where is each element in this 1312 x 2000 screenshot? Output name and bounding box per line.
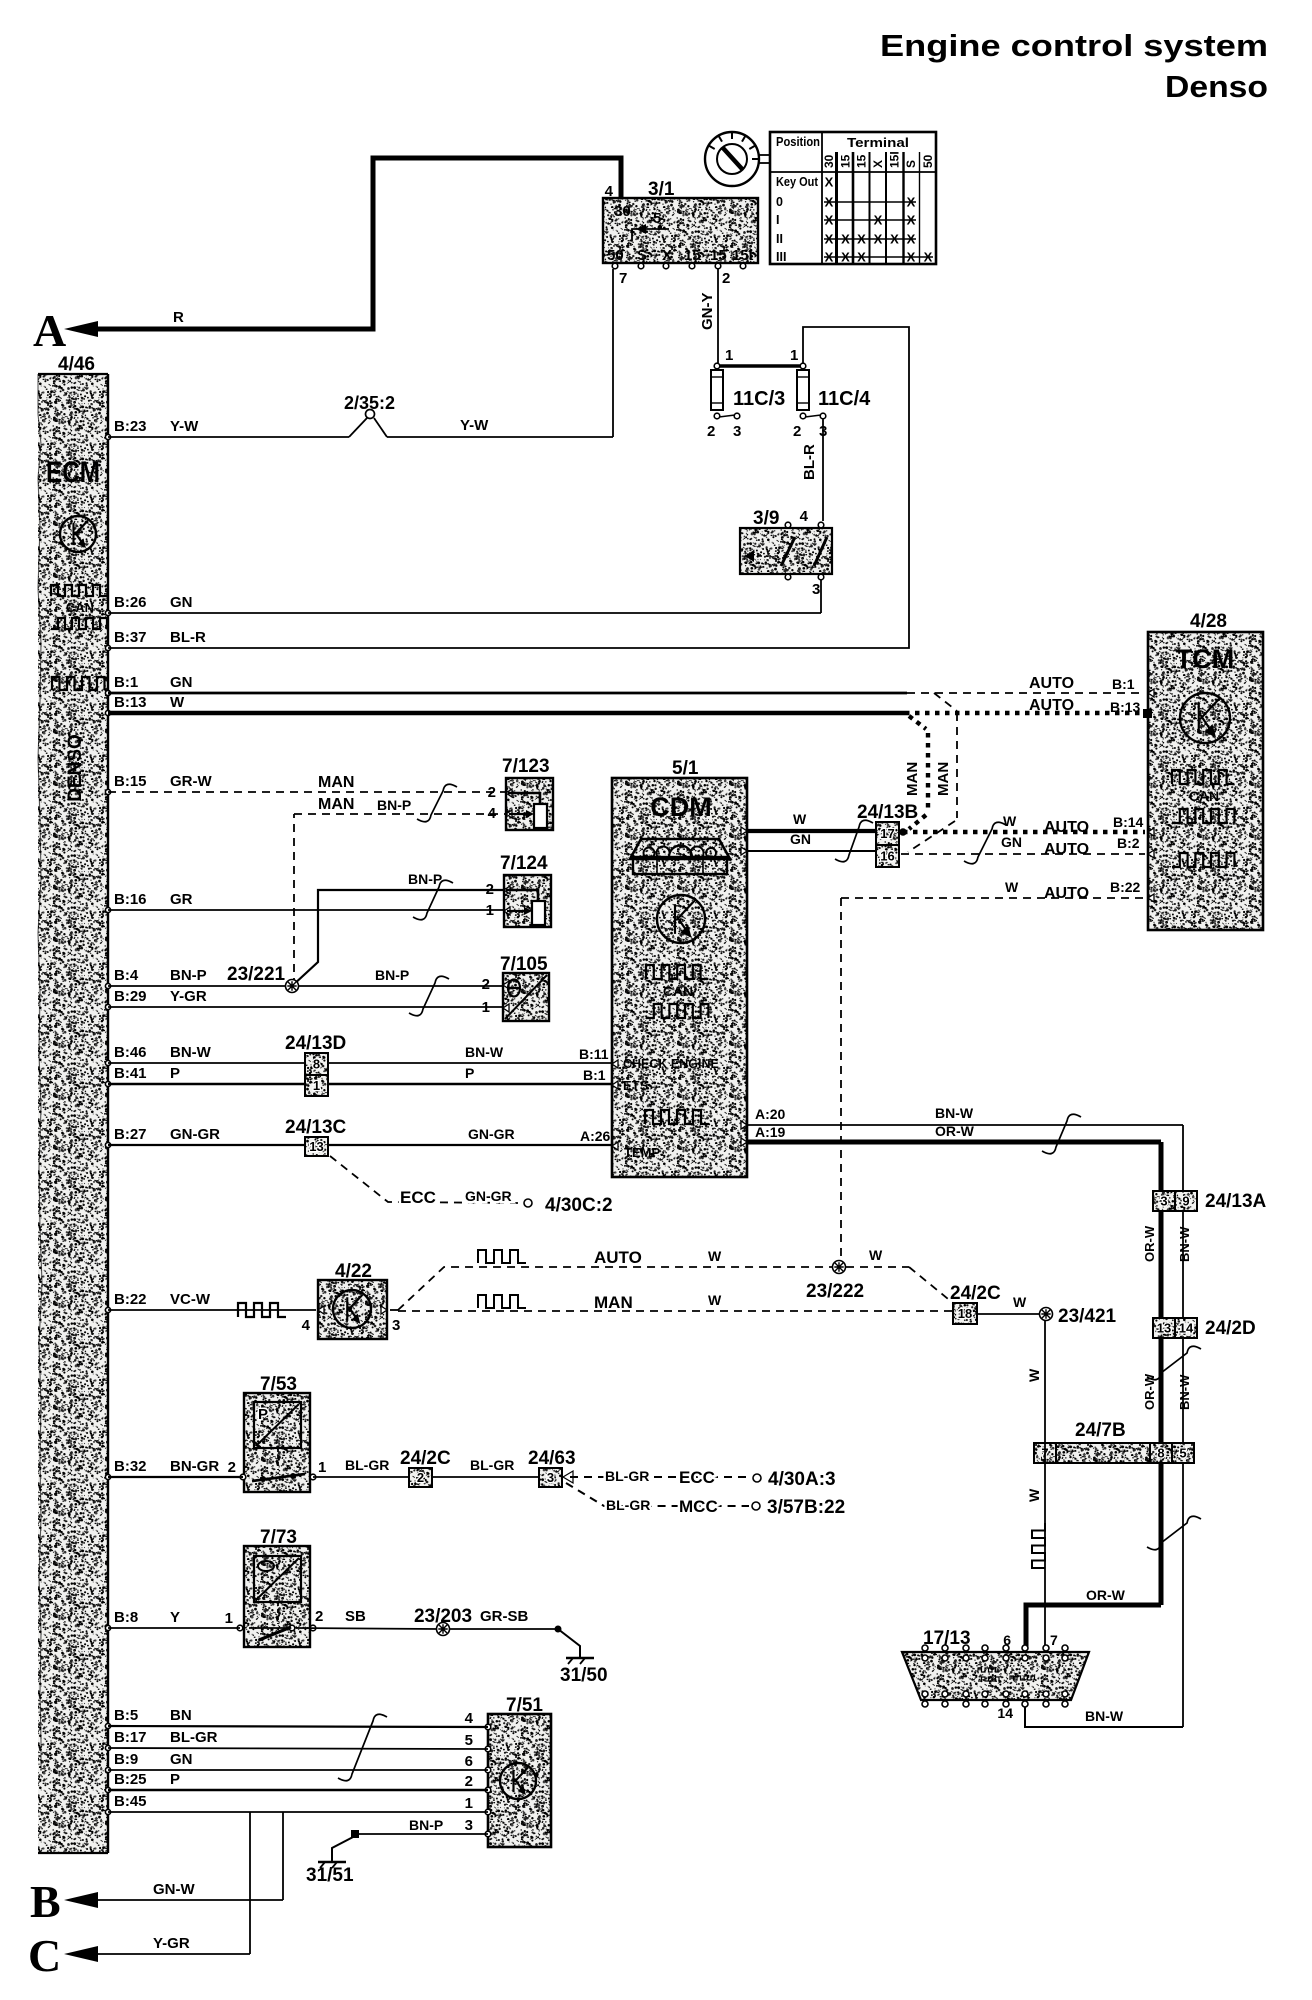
svg-text:W: W bbox=[1005, 879, 1019, 895]
svg-text:W: W bbox=[793, 811, 807, 827]
svg-text:18: 18 bbox=[958, 1306, 972, 1321]
svg-text:AUTO: AUTO bbox=[1029, 697, 1074, 714]
svg-text:BL-GR: BL-GR bbox=[170, 1729, 218, 1746]
svg-text:17: 17 bbox=[880, 826, 894, 841]
svg-text:2: 2 bbox=[465, 1773, 473, 1790]
svg-text:B:2: B:2 bbox=[1117, 835, 1140, 851]
svg-text:Key Out: Key Out bbox=[776, 175, 819, 189]
svg-text:B:23: B:23 bbox=[114, 418, 147, 435]
svg-text:ECC: ECC bbox=[679, 1468, 715, 1487]
svg-text:BN-P: BN-P bbox=[409, 1817, 443, 1833]
svg-text:MAN: MAN bbox=[318, 796, 354, 813]
svg-text:OR-W: OR-W bbox=[1086, 1587, 1126, 1603]
svg-text:7/123: 7/123 bbox=[502, 756, 550, 777]
svg-text:B:37: B:37 bbox=[114, 629, 147, 646]
svg-text:GR: GR bbox=[170, 891, 193, 908]
svg-text:ECM: ECM bbox=[46, 456, 100, 489]
svg-text:Y-W: Y-W bbox=[170, 418, 199, 435]
svg-text:1: 1 bbox=[318, 1459, 326, 1476]
svg-text:6: 6 bbox=[465, 1753, 473, 1770]
svg-text:B:26: B:26 bbox=[114, 594, 147, 611]
svg-text:GN: GN bbox=[170, 674, 193, 691]
svg-text:GR-W: GR-W bbox=[170, 773, 212, 790]
svg-text:BN-P: BN-P bbox=[377, 797, 411, 813]
svg-text:Position: Position bbox=[776, 134, 820, 149]
svg-text:B:9: B:9 bbox=[114, 1751, 138, 1768]
svg-text:CAN: CAN bbox=[663, 983, 693, 999]
svg-text:BN-W: BN-W bbox=[935, 1105, 974, 1121]
svg-text:30: 30 bbox=[614, 203, 631, 220]
svg-text:3: 3 bbox=[1160, 1194, 1167, 1209]
svg-text:ETS: ETS bbox=[623, 1078, 649, 1093]
svg-text:2: 2 bbox=[722, 270, 730, 287]
svg-text:24/13D: 24/13D bbox=[285, 1033, 346, 1054]
svg-text:X: X bbox=[871, 160, 885, 168]
svg-text:GR-SB: GR-SB bbox=[480, 1608, 529, 1625]
svg-text:23/421: 23/421 bbox=[1058, 1306, 1117, 1327]
svg-text:CHECK ENGINE: CHECK ENGINE bbox=[623, 1057, 719, 1071]
svg-text:6: 6 bbox=[1003, 1632, 1011, 1648]
svg-text:CAN: CAN bbox=[66, 600, 94, 615]
svg-text:DENSO: DENSO bbox=[65, 734, 86, 802]
svg-text:B:5: B:5 bbox=[114, 1707, 138, 1724]
svg-text:X: X bbox=[662, 247, 672, 264]
svg-text:24/2C: 24/2C bbox=[400, 1448, 451, 1469]
svg-text:14: 14 bbox=[997, 1705, 1013, 1721]
svg-text:W: W bbox=[708, 1248, 722, 1264]
svg-text:III: III bbox=[776, 250, 786, 264]
svg-text:X: X bbox=[890, 232, 899, 247]
svg-text:B:14: B:14 bbox=[1113, 814, 1144, 830]
svg-text:OR-W: OR-W bbox=[1142, 1373, 1157, 1410]
svg-text:2: 2 bbox=[707, 423, 715, 440]
svg-text:W: W bbox=[170, 694, 185, 711]
svg-text:24/2D: 24/2D bbox=[1205, 1318, 1256, 1339]
svg-text:B: B bbox=[30, 1876, 61, 1927]
svg-text:11C/4: 11C/4 bbox=[818, 388, 871, 410]
svg-text:I: I bbox=[776, 213, 779, 227]
svg-text:B:41: B:41 bbox=[114, 1065, 147, 1082]
svg-text:P: P bbox=[465, 1065, 474, 1081]
svg-text:B:25: B:25 bbox=[114, 1771, 147, 1788]
svg-text:BN-P: BN-P bbox=[408, 871, 442, 887]
svg-text:GN-W: GN-W bbox=[153, 1881, 195, 1898]
svg-text:BL-GR: BL-GR bbox=[470, 1457, 514, 1473]
svg-text:24/63: 24/63 bbox=[528, 1448, 576, 1469]
svg-text:II: II bbox=[776, 232, 783, 246]
svg-text:AUTO: AUTO bbox=[1044, 819, 1089, 836]
svg-text:1: 1 bbox=[725, 347, 733, 364]
svg-text:B:16: B:16 bbox=[114, 891, 147, 908]
svg-text:50: 50 bbox=[921, 154, 935, 168]
svg-text:MAN: MAN bbox=[594, 1293, 633, 1312]
svg-text:GN: GN bbox=[790, 831, 811, 847]
svg-text:B:22: B:22 bbox=[1110, 879, 1141, 895]
svg-text:P: P bbox=[258, 1406, 268, 1423]
svg-text:Y-GR: Y-GR bbox=[170, 988, 207, 1005]
svg-text:BL-GR: BL-GR bbox=[345, 1457, 389, 1473]
svg-text:B:1: B:1 bbox=[114, 674, 138, 691]
svg-text:B:27: B:27 bbox=[114, 1126, 147, 1143]
svg-text:3/1: 3/1 bbox=[648, 179, 675, 200]
svg-text:MAN: MAN bbox=[318, 774, 354, 791]
svg-text:Denso: Denso bbox=[1165, 69, 1268, 104]
svg-text:15: 15 bbox=[710, 247, 727, 264]
svg-text:W: W bbox=[1026, 1368, 1042, 1382]
svg-text:AUTO: AUTO bbox=[1044, 885, 1089, 902]
svg-text:31/51: 31/51 bbox=[306, 1865, 354, 1886]
svg-text:GN-Y: GN-Y bbox=[699, 293, 716, 331]
svg-text:BL-R: BL-R bbox=[170, 629, 206, 646]
svg-text:X: X bbox=[907, 195, 916, 210]
svg-text:X: X bbox=[825, 250, 834, 265]
svg-text:B:45: B:45 bbox=[114, 1793, 147, 1810]
svg-text:1: 1 bbox=[465, 1795, 473, 1812]
svg-text:4: 4 bbox=[800, 508, 809, 525]
svg-text:OR-W: OR-W bbox=[935, 1123, 975, 1139]
svg-text:3: 3 bbox=[392, 1317, 400, 1334]
svg-text:2: 2 bbox=[417, 1470, 424, 1485]
svg-text:AUTO: AUTO bbox=[1029, 675, 1074, 692]
svg-text:3: 3 bbox=[812, 581, 820, 598]
svg-text:S: S bbox=[637, 247, 647, 264]
svg-text:GN-GR: GN-GR bbox=[465, 1188, 512, 1204]
svg-text:15: 15 bbox=[839, 154, 853, 168]
svg-text:BN-W: BN-W bbox=[1177, 1374, 1192, 1410]
svg-text:4: 4 bbox=[605, 183, 614, 200]
svg-text:2: 2 bbox=[793, 423, 801, 440]
svg-text:P: P bbox=[170, 1065, 180, 1082]
svg-text:A:20: A:20 bbox=[755, 1106, 786, 1122]
svg-text:W: W bbox=[869, 1247, 883, 1263]
svg-text:X: X bbox=[825, 213, 834, 228]
svg-text:23/221: 23/221 bbox=[227, 964, 286, 985]
svg-text:ECC: ECC bbox=[400, 1188, 436, 1207]
svg-text:7: 7 bbox=[619, 270, 627, 287]
svg-text:16: 16 bbox=[880, 849, 894, 864]
svg-text:4: 4 bbox=[465, 1710, 474, 1727]
svg-text:GN: GN bbox=[170, 1751, 193, 1768]
svg-text:24/7B: 24/7B bbox=[1075, 1420, 1126, 1441]
svg-text:B:17: B:17 bbox=[114, 1729, 147, 1746]
svg-text:X: X bbox=[874, 232, 883, 247]
svg-text:B:13: B:13 bbox=[114, 694, 147, 711]
svg-text:A:26: A:26 bbox=[580, 1128, 611, 1144]
svg-text:B:13: B:13 bbox=[1110, 699, 1141, 715]
svg-text:9: 9 bbox=[1182, 1194, 1189, 1209]
svg-text:BN-P: BN-P bbox=[375, 967, 409, 983]
svg-text:MAN: MAN bbox=[935, 762, 952, 796]
svg-text:2: 2 bbox=[228, 1459, 236, 1476]
svg-text:4/30A:3: 4/30A:3 bbox=[768, 1469, 836, 1490]
svg-text:BN-P: BN-P bbox=[170, 967, 207, 984]
svg-text:TEMP: TEMP bbox=[624, 1145, 660, 1160]
svg-text:B:1: B:1 bbox=[1112, 676, 1135, 692]
svg-text:C: C bbox=[28, 1930, 61, 1981]
svg-text:MAN: MAN bbox=[904, 762, 921, 796]
svg-text:GN-GR: GN-GR bbox=[468, 1126, 515, 1142]
svg-text:X: X bbox=[874, 213, 883, 228]
svg-text:B:11: B:11 bbox=[579, 1046, 609, 1062]
svg-text:7: 7 bbox=[1050, 1632, 1058, 1648]
svg-text:CDM: CDM bbox=[650, 792, 712, 822]
svg-text:Y-W: Y-W bbox=[460, 417, 489, 434]
svg-text:X: X bbox=[825, 232, 834, 247]
svg-text:2/35:2: 2/35:2 bbox=[344, 393, 395, 413]
svg-text:AUTO: AUTO bbox=[1044, 841, 1089, 858]
svg-text:1: 1 bbox=[313, 1078, 320, 1093]
svg-text:2: 2 bbox=[315, 1608, 323, 1625]
svg-text:S: S bbox=[904, 160, 918, 168]
svg-text:3: 3 bbox=[465, 1817, 473, 1834]
svg-text:8: 8 bbox=[1157, 1446, 1164, 1461]
svg-text:B:22: B:22 bbox=[114, 1291, 147, 1308]
svg-text:7/124: 7/124 bbox=[500, 853, 548, 874]
svg-text:X: X bbox=[907, 232, 916, 247]
svg-text:3: 3 bbox=[547, 1470, 554, 1485]
svg-text:P: P bbox=[170, 1771, 180, 1788]
svg-text:15: 15 bbox=[855, 154, 869, 168]
svg-text:Y-GR: Y-GR bbox=[153, 1935, 190, 1952]
svg-text:24/13C: 24/13C bbox=[285, 1117, 347, 1138]
svg-text:5: 5 bbox=[465, 1732, 473, 1749]
svg-text:3: 3 bbox=[733, 423, 741, 440]
svg-text:5: 5 bbox=[653, 210, 661, 227]
svg-text:31/50: 31/50 bbox=[560, 1665, 608, 1686]
svg-text:23/222: 23/222 bbox=[806, 1281, 864, 1302]
svg-text:B:46: B:46 bbox=[114, 1044, 147, 1061]
svg-text:X: X bbox=[825, 195, 834, 210]
svg-text:BL-GR: BL-GR bbox=[606, 1497, 650, 1513]
svg-text:B:4: B:4 bbox=[114, 967, 139, 984]
svg-text:1: 1 bbox=[790, 347, 798, 364]
svg-text:24/13A: 24/13A bbox=[1205, 1191, 1267, 1212]
svg-text:OR-W: OR-W bbox=[1142, 1225, 1157, 1262]
svg-text:R: R bbox=[173, 309, 184, 326]
svg-text:11C/3: 11C/3 bbox=[733, 388, 785, 410]
svg-text:X: X bbox=[841, 232, 850, 247]
svg-text:A:19: A:19 bbox=[755, 1124, 786, 1140]
svg-text:B:8: B:8 bbox=[114, 1609, 138, 1626]
svg-text:BN: BN bbox=[170, 1707, 192, 1724]
svg-text:8: 8 bbox=[313, 1057, 320, 1072]
svg-text:4/28: 4/28 bbox=[1190, 611, 1227, 632]
svg-text:B:1: B:1 bbox=[583, 1067, 606, 1083]
svg-text:3/9: 3/9 bbox=[753, 508, 779, 529]
svg-text:50: 50 bbox=[607, 247, 624, 264]
svg-text:A: A bbox=[33, 305, 66, 356]
svg-text:W: W bbox=[1013, 1294, 1027, 1310]
svg-text:GN: GN bbox=[170, 594, 193, 611]
svg-text:1: 1 bbox=[225, 1610, 233, 1627]
svg-text:15I: 15I bbox=[888, 151, 902, 168]
svg-text:X: X bbox=[907, 250, 916, 265]
svg-text:4/46: 4/46 bbox=[58, 354, 95, 375]
svg-text:B:32: B:32 bbox=[114, 1458, 147, 1475]
svg-text:X: X bbox=[907, 213, 916, 228]
svg-text:0: 0 bbox=[776, 195, 783, 209]
svg-text:GN-GR: GN-GR bbox=[170, 1126, 220, 1143]
svg-text:MCC: MCC bbox=[679, 1497, 718, 1516]
svg-text:24/2C: 24/2C bbox=[950, 1283, 1001, 1304]
svg-text:BN-GR: BN-GR bbox=[170, 1458, 219, 1475]
svg-text:13: 13 bbox=[1157, 1321, 1171, 1336]
svg-text:5/1: 5/1 bbox=[672, 758, 699, 779]
svg-text:BN-W: BN-W bbox=[170, 1044, 212, 1061]
svg-text:Terminal: Terminal bbox=[847, 135, 909, 150]
svg-text:BL-GR: BL-GR bbox=[605, 1468, 649, 1484]
svg-text:14: 14 bbox=[1179, 1321, 1194, 1336]
svg-text:BN-W: BN-W bbox=[465, 1044, 504, 1060]
svg-text:X: X bbox=[857, 232, 866, 247]
svg-text:BL-R: BL-R bbox=[801, 444, 818, 480]
svg-text:X: X bbox=[857, 250, 866, 265]
svg-text:W: W bbox=[1026, 1488, 1042, 1502]
svg-text:15I: 15I bbox=[732, 247, 753, 264]
svg-text:30: 30 bbox=[822, 154, 836, 168]
svg-text:4/30C:2: 4/30C:2 bbox=[545, 1195, 613, 1216]
svg-text:B:29: B:29 bbox=[114, 988, 147, 1005]
svg-text:W: W bbox=[708, 1292, 722, 1308]
svg-text:13: 13 bbox=[309, 1139, 323, 1154]
svg-text:AUTO: AUTO bbox=[594, 1248, 642, 1267]
svg-text:4: 4 bbox=[302, 1317, 311, 1334]
svg-text:X: X bbox=[841, 250, 850, 265]
svg-text:5: 5 bbox=[1179, 1446, 1186, 1461]
svg-text:CAN: CAN bbox=[1189, 788, 1219, 804]
svg-text:Y: Y bbox=[170, 1609, 180, 1626]
svg-text:Engine control system: Engine control system bbox=[880, 28, 1268, 63]
svg-text:GN: GN bbox=[1001, 834, 1022, 850]
svg-text:15: 15 bbox=[684, 247, 701, 264]
svg-text:X: X bbox=[825, 175, 834, 190]
svg-text:B:15: B:15 bbox=[114, 773, 147, 790]
svg-text:BN-W: BN-W bbox=[1177, 1226, 1192, 1262]
svg-text:3/57B:22: 3/57B:22 bbox=[767, 1497, 845, 1518]
svg-text:X: X bbox=[924, 250, 933, 265]
svg-text:TCM: TCM bbox=[1176, 644, 1234, 674]
svg-text:SB: SB bbox=[345, 1608, 366, 1625]
svg-text:W: W bbox=[1003, 813, 1017, 829]
svg-text:VC-W: VC-W bbox=[170, 1291, 211, 1308]
svg-text:2: 2 bbox=[482, 976, 490, 993]
svg-text:BN-W: BN-W bbox=[1085, 1708, 1124, 1724]
